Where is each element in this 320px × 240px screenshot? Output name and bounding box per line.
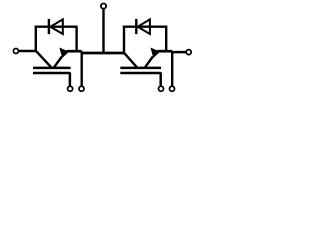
wire D1 loop right vertical xyxy=(75,27,77,52)
wire Q2 emitter stem down xyxy=(171,51,173,86)
diode D2 triangle xyxy=(138,19,150,34)
wire collector vertical Q2 xyxy=(123,26,125,54)
transistor Q1 gate bar xyxy=(33,73,70,86)
transistor Q2 emitter arrowhead xyxy=(152,49,159,56)
transistor Q1 collector diagonal xyxy=(36,51,51,67)
transistor Q2 body bar xyxy=(120,67,161,70)
wire diode D2 axis xyxy=(123,26,167,28)
terminal C1 (left terminal circle) xyxy=(13,49,18,54)
transistor Q1 body bar xyxy=(33,67,71,70)
transistor Q1 emitter diagonal xyxy=(54,57,62,68)
wire diode D1 axis xyxy=(35,26,78,28)
transistor Q2 collector diagonal xyxy=(124,53,136,67)
terminal G1 (gate bottom circle) xyxy=(68,86,73,91)
transistor Q2 emitter diagonal xyxy=(145,57,153,68)
wire left terminal to collector junction xyxy=(19,50,37,52)
wire output bus xyxy=(82,52,125,55)
diode D1 cathode bar xyxy=(48,19,50,34)
transistor Q1 emitter arrowhead xyxy=(61,49,68,56)
diode D1 triangle xyxy=(50,19,63,34)
wire Q2 emitter horizontal xyxy=(158,50,173,53)
terminal E1 (emitter bottom circle) xyxy=(79,86,84,91)
terminal E2 (right terminal circle) xyxy=(186,50,191,55)
wire to right terminal xyxy=(172,51,186,54)
wire Q1 emitter stem down xyxy=(80,51,82,86)
wire top terminal stem xyxy=(102,9,104,53)
terminal G2 (gate bottom circle) xyxy=(159,86,164,91)
transistor Q2 gate bar xyxy=(120,73,160,86)
wire Q1 emitter horizontal xyxy=(67,50,82,53)
terminal E2aux (emitter bottom circle) xyxy=(170,86,175,91)
wire D2 loop right vertical xyxy=(165,27,167,52)
wire collector vertical Q1 xyxy=(35,26,37,51)
diode D2 cathode bar xyxy=(135,19,137,34)
terminal OUT (top middle circle) xyxy=(101,4,106,9)
